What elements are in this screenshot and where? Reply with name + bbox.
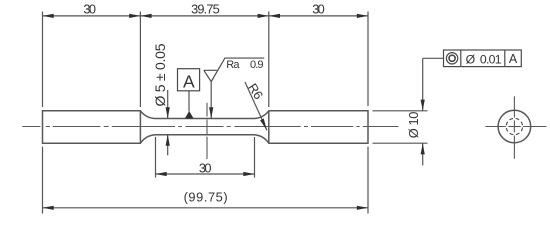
svg-text:Ø 0.01: Ø 0.01 [466,52,502,66]
svg-text:0.9: 0.9 [250,59,264,71]
svg-text:30: 30 [312,1,325,16]
svg-text:A: A [509,52,518,66]
svg-text:Ra: Ra [226,59,240,71]
svg-text:(99.75): (99.75) [184,189,228,204]
svg-text:30: 30 [83,1,96,16]
svg-text:30: 30 [199,161,212,176]
svg-text:Ø 10: Ø 10 [406,112,421,139]
svg-text:A: A [183,72,195,92]
svg-text:Ø 5 ± 0.05: Ø 5 ± 0.05 [152,43,168,106]
svg-text:39.75: 39.75 [191,1,220,16]
